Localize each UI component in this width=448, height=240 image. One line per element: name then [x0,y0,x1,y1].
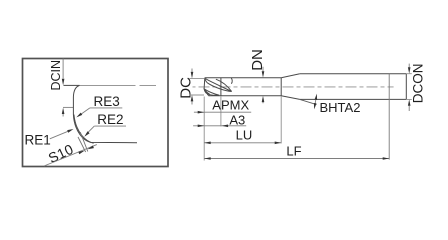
wire flute main blade [205,78,232,91]
wire relief profile curve [73,85,79,114]
body of end mill: outline [204,74,406,100]
dimension DCON [406,64,425,111]
node S10 label [44,141,97,166]
wire taper top [281,74,300,78]
svg-text:RE1: RE1 [25,133,51,148]
svg-text:LF: LF [286,143,301,158]
wire extension line at flute end [220,97,222,127]
wire shank top edge [300,73,407,75]
svg-text:RE3: RE3 [94,94,120,109]
wire flute end line [220,78,222,96]
wire extension line at neck end [280,97,282,144]
dimension BHTA2 [300,94,361,115]
wire corner radius curve outer [73,115,137,143]
svg-text:LU: LU [236,127,253,142]
dimension DCIN upper line [62,59,65,86]
dimension A3 [193,112,246,127]
wire extension line at tool tip [203,97,205,161]
wire LF extension line at shank [388,74,390,160]
svg-text:A3: A3 [229,112,245,127]
svg-text:APMX: APMX [212,97,249,112]
dimension APMX [194,97,251,113]
wire centerline of tool [193,86,394,88]
wire top face line of detail [64,84,80,86]
wire flute bottom lens [204,89,219,95]
svg-text:DCIN: DCIN [49,60,63,91]
wire chamfer tick B [78,137,86,152]
wire tip left cap [204,78,209,96]
wire bottom edge [208,95,281,97]
wire flute runout hook [230,78,233,84]
wire angle dimension line [315,97,316,106]
wire shank right edge [405,74,407,100]
wire flute corner notch [205,90,209,94]
wire taper extension [300,99,317,104]
wire taper bottom [281,96,300,100]
dimension LU [204,127,281,144]
svg-text:DCON: DCON [410,64,425,104]
dimension DC [177,69,204,105]
node RE2 label [84,112,126,137]
wire shank bottom edge [300,98,407,100]
wire step extension line DCIN [63,106,73,108]
dimension DCIN lower arrow [62,108,65,117]
wire neck end vertical [280,78,282,96]
wire chamfer tick A [80,132,88,152]
detail box frame [23,59,169,167]
dimension LF [204,143,389,160]
wire corner radius curve inner [74,115,94,144]
wire flute second spiral [216,79,232,91]
node RE3 label [76,94,122,118]
wire top edge [205,77,281,79]
dimension DN [249,49,266,103]
svg-text:RE2: RE2 [97,112,123,127]
node RE1 label [25,129,74,148]
svg-text:BHTA2: BHTA2 [320,100,361,115]
